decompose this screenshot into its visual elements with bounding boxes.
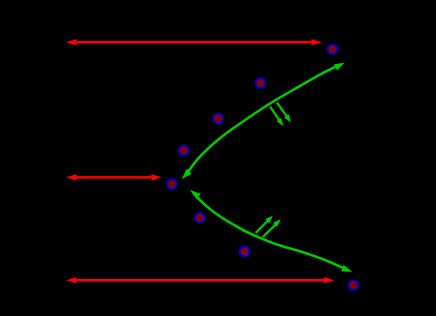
dot 3	[213, 114, 223, 124]
dot 2	[256, 78, 266, 88]
dot 1 (top right)	[328, 44, 338, 54]
green curve upper (double-headed)	[182, 63, 345, 180]
green curve lower (double-headed)	[190, 190, 352, 272]
dot 8 (bottom right)	[349, 280, 359, 290]
red double arrow middle	[66, 174, 162, 180]
dot 6	[195, 213, 205, 223]
red double arrow top	[66, 39, 322, 45]
dot 5 (middle)	[167, 179, 177, 189]
red double arrow bottom	[66, 277, 335, 283]
small green arrow C (lower pair, left)	[256, 216, 273, 233]
small green arrow A (upper pair, left)	[270, 107, 283, 127]
small green arrow D (lower pair, right)	[263, 219, 281, 237]
small green arrow B (upper pair, right)	[277, 103, 291, 123]
dot 4	[179, 146, 189, 156]
dot 7	[240, 247, 250, 257]
